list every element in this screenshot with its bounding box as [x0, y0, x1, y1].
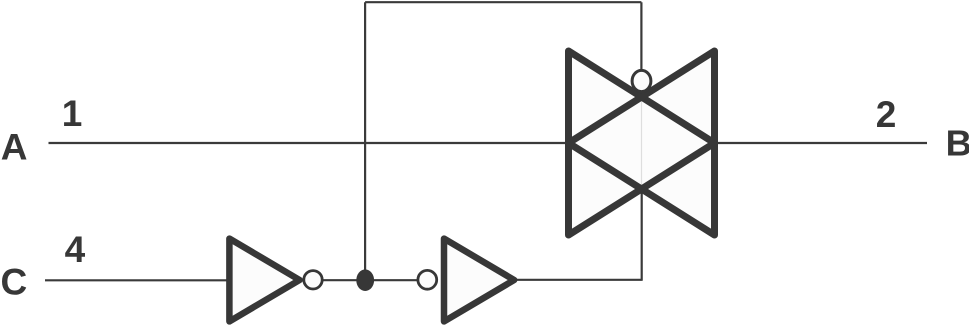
transmission gate U3 stroke (right-pointing triangle) — [569, 51, 715, 235]
wire up to gate lower crossing — [641, 190, 643, 281]
svg-text:1: 1 — [62, 93, 83, 134]
wire down to gate control bubble — [640, 2, 642, 70]
inverter U1 output bubble — [304, 271, 322, 289]
svg-text:4: 4 — [65, 229, 86, 270]
inverter U2 input bubble — [418, 270, 437, 289]
wire U1 bubble to U2 bubble — [322, 279, 418, 281]
svg-text:2: 2 — [876, 94, 897, 135]
control bubble on transmission gate top — [632, 70, 651, 91]
wire A to B (net through transmission gate) — [49, 142, 928, 144]
wire U2 output to gate bottom — [515, 279, 642, 281]
transmission gate U3 fill (right-pointing triangle) — [569, 51, 715, 235]
inverter U2 triangle — [444, 239, 514, 322]
faint control line through gate — [641, 97, 643, 189]
inverter U1 triangle — [229, 239, 299, 322]
svg-text:C: C — [1, 262, 28, 303]
svg-text:B: B — [946, 123, 969, 164]
transmission gate U3 stroke (left-pointing triangle) — [569, 51, 715, 235]
junction node (C control net) — [356, 269, 374, 291]
wire top horizontal — [365, 1, 641, 3]
svg-text:A: A — [1, 126, 28, 167]
wire junction up to top — [364, 2, 366, 280]
transmission gate U3 fill (left-pointing triangle) — [569, 51, 715, 235]
wire C to inverter U1 input — [45, 279, 231, 281]
